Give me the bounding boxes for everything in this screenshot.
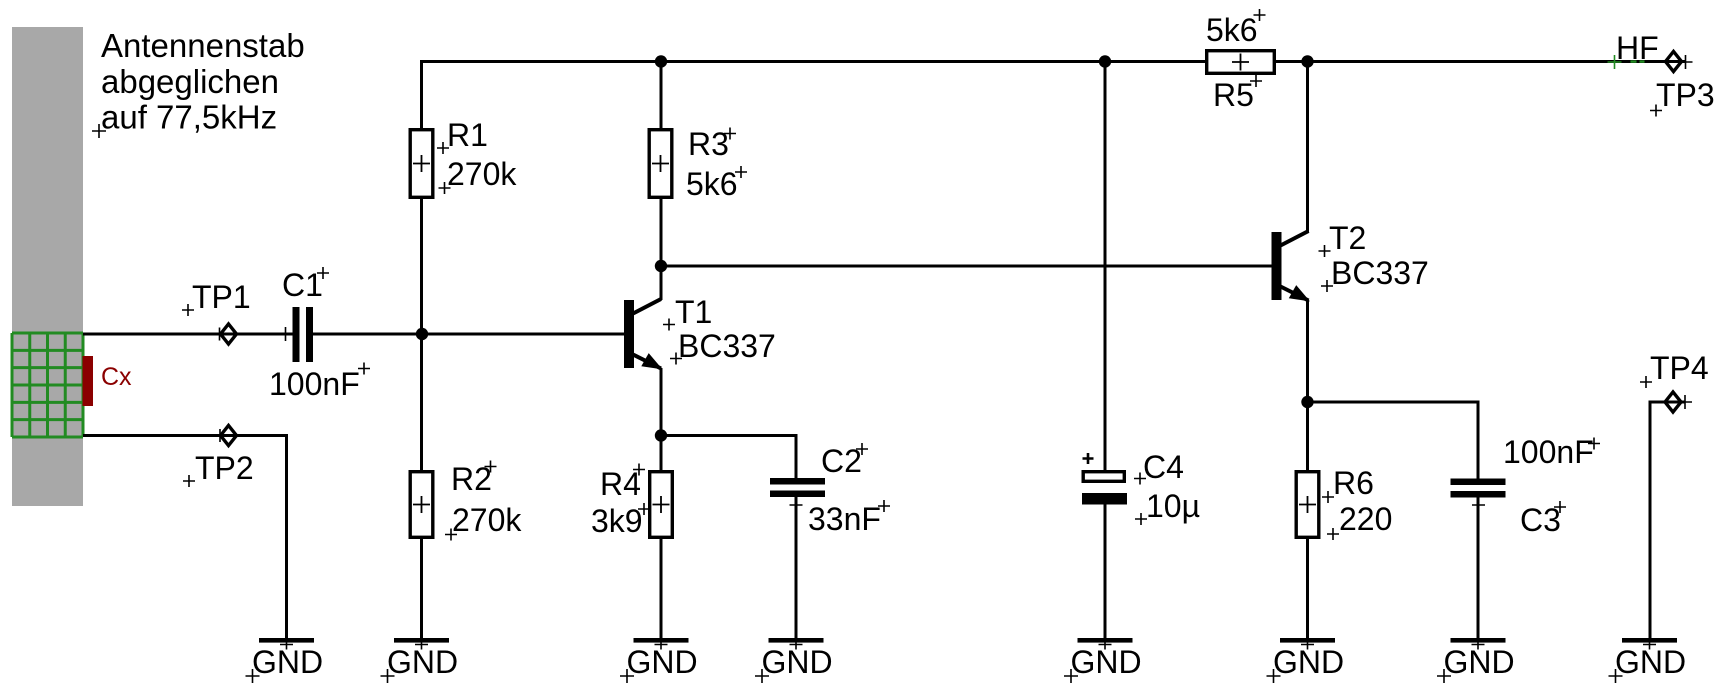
ground GND C4 — [1064, 638, 1142, 683]
wire TP4 stub — [1649, 401, 1686, 404]
antenna rod (gray bar) — [12, 27, 83, 506]
capacitor C3 (100nF) — [1451, 479, 1506, 498]
junction T1 collector / T2 base — [655, 260, 667, 272]
svg-text:GND: GND — [387, 644, 458, 680]
junction top rail / T2 collector — [1301, 55, 1313, 67]
wire R3 top drop — [660, 62, 663, 129]
capacitor C1 (100nF) — [293, 307, 314, 362]
test point diamond TP4 — [1665, 392, 1681, 412]
capacitor Cx (trimmer on antenna) — [83, 356, 94, 406]
test point diamond TP3 / HF output — [1666, 52, 1682, 72]
svg-text:HF: HF — [1616, 30, 1659, 66]
svg-text:auf 77,5kHz: auf 77,5kHz — [101, 99, 277, 136]
svg-text:BC337: BC337 — [1331, 255, 1429, 291]
svg-text:GND: GND — [761, 644, 832, 680]
svg-text:GND: GND — [626, 644, 697, 680]
junction T1 emitter / R4 / C2 — [655, 429, 667, 441]
pin cross C1 — [279, 327, 293, 341]
wire TP4 down to ground — [1649, 401, 1652, 639]
antenna coil grid (green) — [12, 333, 83, 437]
wire T1 collector junction to T2 base — [661, 265, 1272, 268]
ground GND R6 — [1267, 638, 1345, 683]
wire C4 bottom to ground — [1104, 504, 1107, 638]
wire R1 top drop — [420, 60, 423, 128]
ground GND R2 — [381, 638, 459, 683]
junction base node / R1-R2 — [416, 328, 428, 340]
wire C3 bottom plate to ground — [1477, 498, 1480, 639]
junction T2 emitter / R6 / C3 — [1301, 396, 1313, 408]
svg-text:R3: R3 — [688, 126, 729, 162]
svg-text:GND: GND — [1615, 644, 1686, 680]
svg-text:R4: R4 — [600, 466, 641, 502]
ground GND TP2 — [246, 638, 324, 683]
svg-text:5k6: 5k6 — [686, 166, 738, 202]
svg-text:abgeglichen: abgeglichen — [101, 63, 279, 100]
wire C2 bottom plate to ground — [795, 497, 798, 638]
wire C2 corner down to top plate — [795, 434, 798, 478]
wire T2 emitter vertical to junction — [1306, 301, 1309, 403]
svg-text:GND: GND — [1443, 644, 1514, 680]
wire T2 emitter junction to R6 — [1306, 402, 1309, 470]
svg-text:T2: T2 — [1329, 220, 1366, 256]
svg-text:270k: 270k — [452, 502, 522, 538]
svg-text:10µ: 10µ — [1146, 488, 1200, 524]
svg-text:Antennenstab: Antennenstab — [101, 27, 305, 64]
wire junction to R2 top — [420, 334, 423, 470]
pin cross C3 — [1472, 499, 1485, 512]
wire antenna to C1 (base node) — [83, 333, 293, 336]
svg-text:3k9: 3k9 — [591, 503, 643, 539]
svg-text:T1: T1 — [675, 294, 712, 330]
wire R3 bottom to T1 collector junction — [660, 199, 663, 266]
ground GND R4 — [620, 638, 698, 683]
node HF top rail right part — [1276, 60, 1686, 63]
wire antenna bottom to TP2 corner — [83, 434, 287, 437]
capacitor C2 (33nF) — [770, 478, 825, 497]
wire R1 bottom to junction — [420, 199, 423, 334]
wire C3 corner down to top plate — [1477, 401, 1480, 479]
wire T1 emitter vertical to junction — [660, 368, 663, 436]
svg-text:C1: C1 — [282, 267, 323, 303]
svg-text:TP2: TP2 — [195, 450, 254, 486]
ground GND C2 — [755, 638, 833, 683]
pin cross C2 — [790, 499, 803, 512]
wire TP2 corner down to ground — [285, 434, 288, 638]
pin cross TP2 — [214, 429, 227, 442]
transistor T2 (NPN BC337) — [1272, 231, 1311, 301]
ground GND C3 — [1437, 638, 1515, 683]
svg-text:R5: R5 — [1213, 77, 1254, 113]
svg-text:33nF: 33nF — [808, 501, 881, 537]
note anchor cross — [92, 124, 106, 138]
pin cross TP4 — [1678, 395, 1692, 409]
svg-text:GND: GND — [252, 644, 323, 680]
svg-text:GND: GND — [1273, 644, 1344, 680]
svg-text:5k6: 5k6 — [1206, 12, 1258, 48]
junction top rail / C4 — [1099, 55, 1111, 67]
svg-text:GND: GND — [1070, 644, 1141, 680]
ground GND TP4 — [1609, 638, 1687, 683]
svg-text:TP3: TP3 — [1656, 77, 1715, 113]
svg-text:C4: C4 — [1143, 449, 1184, 485]
wire T1 emitter junction to R4 — [660, 436, 663, 471]
C4 polarity plus — [1083, 453, 1094, 464]
svg-text:R6: R6 — [1333, 465, 1374, 501]
test point diamond TP1 — [221, 324, 237, 344]
resistor R4 — [650, 472, 673, 538]
junction top rail / R3 — [655, 55, 667, 67]
svg-text:C2: C2 — [821, 443, 862, 479]
note text: Antennenstab abgeglichen auf 77,5kHz — [101, 27, 305, 136]
resistor R6 — [1296, 472, 1319, 538]
node VCC top rail left part — [420, 60, 1205, 63]
transistor T1 (NPN BC337) — [624, 299, 663, 369]
HF net anchor cross — [1608, 55, 1622, 69]
pin cross TP3 — [1679, 55, 1693, 69]
wire C1 to T1 base — [313, 333, 625, 336]
capacitor C4 (10u electrolytic) — [1082, 472, 1127, 505]
svg-text:BC337: BC337 — [678, 328, 776, 364]
svg-text:220: 220 — [1339, 501, 1392, 537]
svg-text:100nF: 100nF — [269, 366, 360, 402]
pin cross TP1 — [213, 328, 226, 341]
resistor R2 — [410, 472, 433, 538]
wire R2 bottom to ground — [420, 539, 423, 638]
wire R4 bottom to ground — [660, 539, 663, 638]
svg-text:Cx: Cx — [101, 363, 132, 391]
wire emitter junction to C3 corner — [1308, 401, 1479, 404]
svg-text:100nF: 100nF — [1503, 434, 1594, 470]
resistor R3 — [649, 130, 672, 198]
resistor R1 — [410, 130, 433, 198]
wire emitter junction to C2 corner — [661, 434, 796, 437]
svg-text:R1: R1 — [447, 117, 488, 153]
wire top rail to C4 — [1104, 62, 1107, 479]
wire R6 bottom to ground — [1306, 539, 1309, 638]
svg-text:TP1: TP1 — [192, 279, 251, 315]
test point diamond TP2 — [221, 426, 237, 446]
resistor R5 — [1207, 51, 1275, 74]
svg-text:TP4: TP4 — [1650, 350, 1709, 386]
svg-text:270k: 270k — [447, 156, 517, 192]
wire T1 collector vertical — [660, 266, 663, 300]
wire top rail to T2 collector — [1306, 62, 1309, 233]
